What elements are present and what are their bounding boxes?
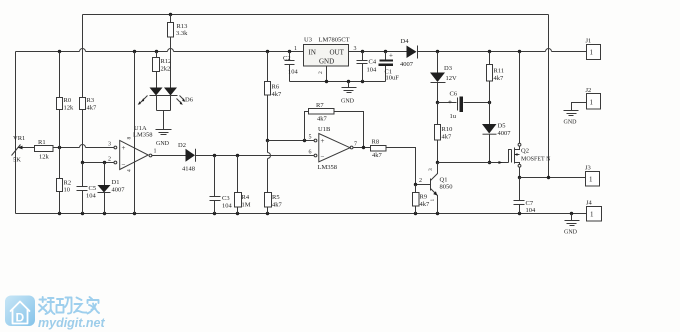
svg-text:1: 1 <box>590 99 594 107</box>
ground symbol for D6 <box>156 130 172 148</box>
node rail C / R2 <box>58 212 61 215</box>
svg-text:C7: C7 <box>526 200 534 207</box>
wire bottom rail C <box>16 213 587 215</box>
svg-text:3: 3 <box>108 142 111 148</box>
wire rail B left segment with hops at x=82 and x=170.5 <box>16 51 304 53</box>
resistor R9 <box>413 185 431 214</box>
resistor R4 <box>235 156 251 214</box>
wire D2 to U1B pin6 with hop at x=267 <box>196 155 314 157</box>
wire U1A power pin vertical x134.3 (rail B to rail C through symbol) <box>134 52 136 214</box>
wire U1B output to R8 <box>354 147 371 149</box>
node rail C / J4 ground <box>570 212 573 215</box>
svg-text:104: 104 <box>367 67 378 74</box>
op-amp U1B LM358 <box>309 126 358 171</box>
connector J2 <box>572 87 601 111</box>
svg-text:+: + <box>122 144 126 152</box>
ground symbol below U3 <box>341 82 357 105</box>
svg-text:12k: 12k <box>64 105 75 112</box>
node rail B / U1A pin8 <box>133 50 136 53</box>
svg-text:4148: 4148 <box>182 166 195 173</box>
wire pin5 row to U1B <box>268 140 314 142</box>
svg-text:C3: C3 <box>222 195 230 202</box>
svg-text:D6: D6 <box>185 97 194 104</box>
voltage regulator U3 LM7805CT <box>294 37 357 75</box>
svg-text:VR1: VR1 <box>13 135 25 142</box>
node D3/C6/R10 junction <box>436 101 439 104</box>
svg-text:1: 1 <box>590 49 594 57</box>
svg-text:R13: R13 <box>177 23 188 30</box>
svg-text:12k: 12k <box>39 154 50 161</box>
node R10/gate wire junction <box>436 161 439 164</box>
svg-text:104: 104 <box>222 203 233 210</box>
hop arc pin3 wire over vertical x82 <box>80 145 86 148</box>
svg-text:R6: R6 <box>272 84 280 91</box>
svg-text:R11: R11 <box>494 68 505 75</box>
node rail B / C1 <box>384 50 387 53</box>
wire U3 ground bus <box>290 81 386 83</box>
node rail C / C3 <box>213 212 216 215</box>
node C3 junction <box>213 154 216 157</box>
svg-text:1u: 1u <box>450 113 457 120</box>
resistor R8 <box>371 139 387 160</box>
svg-text:R0: R0 <box>64 97 72 104</box>
svg-text:Q1: Q1 <box>440 177 448 184</box>
wire rail B right segment (U3 out to J1) with hop at x=548 <box>349 51 587 53</box>
node rail C / D1 <box>103 212 106 215</box>
wire pin3 row (R1 to U1A pin3) with hop at x=82 <box>54 147 114 149</box>
wire left rail vertical <box>15 52 17 214</box>
transistor Q1 8050 <box>416 163 453 214</box>
svg-text:10uF: 10uF <box>386 75 400 82</box>
svg-text:4k7: 4k7 <box>442 134 453 141</box>
svg-text:+: + <box>389 52 393 60</box>
svg-text:D5: D5 <box>498 123 506 130</box>
node D5/gate wire junction <box>488 161 491 164</box>
svg-text:3: 3 <box>354 46 357 52</box>
diode D3 zener 12V <box>430 52 457 103</box>
svg-text:5: 5 <box>309 135 312 141</box>
svg-text:J1: J1 <box>586 38 592 45</box>
node rail A drop on J3 wire <box>547 176 550 179</box>
svg-text:4k7: 4k7 <box>317 116 328 123</box>
LED D6 dual diode <box>138 88 194 130</box>
svg-text:R8: R8 <box>372 139 380 146</box>
node rail C / R4 <box>236 212 239 215</box>
svg-text:R2: R2 <box>64 180 72 187</box>
wire R13 down to LED (crosses rail B under hop) <box>170 38 172 88</box>
svg-text:4007: 4007 <box>400 61 414 68</box>
junction dot on rail A at R13 <box>169 13 172 16</box>
svg-text:R3: R3 <box>87 97 95 104</box>
watermark logo mydigit <box>5 296 106 331</box>
svg-text:R5: R5 <box>272 194 280 201</box>
connector J4 <box>586 200 602 222</box>
svg-text:4k7: 4k7 <box>420 201 431 208</box>
svg-text:GND: GND <box>341 99 355 105</box>
node pin2/C5 junction <box>81 161 84 164</box>
hop arc rail B over vertical x548 <box>546 49 552 52</box>
svg-text:104: 104 <box>526 207 537 214</box>
mosfet Q2 MOSFET N <box>499 52 552 178</box>
wire top rail A <box>83 14 549 16</box>
node R6/R5/pin5 junction <box>266 139 269 142</box>
svg-text:D: D <box>16 311 25 325</box>
wire vertical x82 R3 to pin2 row <box>82 110 84 163</box>
wire rail A right drop to J3 line <box>548 15 550 178</box>
ground symbol for J2 <box>564 111 579 126</box>
svg-text:MOSFET N: MOSFET N <box>521 157 551 163</box>
svg-text:GND: GND <box>156 141 170 147</box>
svg-text:J2: J2 <box>586 87 592 94</box>
svg-text:J3: J3 <box>585 165 591 172</box>
svg-text:1: 1 <box>154 149 157 155</box>
resistor R12 <box>153 52 172 73</box>
node rail C / U1A pin4 <box>133 212 136 215</box>
node R1/R0/R2 junction <box>58 146 61 149</box>
svg-text:GND: GND <box>564 120 578 126</box>
node rail B / C4 <box>361 50 364 53</box>
resistor R1 <box>35 139 54 161</box>
wire Q2 source to J3 <box>520 177 586 179</box>
svg-text:2k2: 2k2 <box>161 66 171 73</box>
resistor R11 <box>487 52 505 103</box>
svg-text:U1B: U1B <box>318 126 331 133</box>
resistor R2 <box>57 148 72 214</box>
svg-text:+: + <box>321 137 325 145</box>
svg-text:R1: R1 <box>38 139 46 146</box>
node rail B / R11 <box>488 50 491 53</box>
svg-text:IN: IN <box>309 49 316 57</box>
potentiometer VR1 <box>12 135 35 164</box>
resistor R6 <box>265 52 283 99</box>
svg-text:104: 104 <box>288 69 299 76</box>
wire U1A output to D2 <box>151 155 185 157</box>
svg-text:1M: 1M <box>242 202 251 209</box>
svg-text:GND: GND <box>319 58 334 66</box>
capacitor C3 <box>210 156 233 214</box>
wire U3 GND pin down <box>326 66 328 82</box>
svg-text:U3: U3 <box>304 37 312 44</box>
hop arc rail B over vertical x82 <box>80 49 86 52</box>
svg-text:−: − <box>122 161 126 169</box>
svg-text:6: 6 <box>309 150 312 156</box>
svg-text:2: 2 <box>108 157 111 163</box>
node rail B / R0 <box>58 50 61 53</box>
resistor R0 <box>57 52 75 148</box>
svg-text:8050: 8050 <box>440 184 453 191</box>
svg-text:R12: R12 <box>161 58 172 65</box>
diode D2 <box>178 142 196 173</box>
node rail B / R6 <box>266 50 269 53</box>
capacitor C2 <box>283 52 299 82</box>
svg-text:C4: C4 <box>369 59 377 66</box>
svg-text:R7: R7 <box>316 102 324 109</box>
node R7/output junction <box>362 146 365 149</box>
resistor R13 <box>168 15 189 38</box>
svg-text:LM358: LM358 <box>133 132 153 139</box>
svg-text:10: 10 <box>64 187 71 194</box>
resistor R10 <box>435 103 453 163</box>
node gnd symbol on bus <box>347 80 350 83</box>
svg-text:104: 104 <box>86 193 97 200</box>
svg-text:−: − <box>321 153 325 161</box>
svg-text:7: 7 <box>354 142 357 148</box>
svg-text:LM358: LM358 <box>318 164 338 171</box>
svg-text:4007: 4007 <box>498 130 512 137</box>
capacitor C1 electrolytic <box>379 52 400 82</box>
svg-text:4k7: 4k7 <box>272 202 283 209</box>
svg-text:C5: C5 <box>89 185 97 192</box>
capacitor C7 <box>514 178 537 215</box>
node pin2/D1 junction <box>103 161 106 164</box>
svg-text:R9: R9 <box>420 194 428 201</box>
node R7 feedback tap on pin5 wire <box>303 139 306 142</box>
svg-text:R10: R10 <box>442 126 453 133</box>
hop arc vertical x267 over pin6 wire <box>268 153 271 159</box>
node rail C / R5 <box>266 212 269 215</box>
node Q1 base / R9 junction <box>414 183 417 186</box>
node rail C / Q1 emitter <box>436 212 439 215</box>
node U3 gnd pin on bus <box>325 80 328 83</box>
resistor R3 <box>80 97 98 112</box>
node R4 junction <box>236 154 239 157</box>
node rail C / R9 <box>414 212 417 215</box>
node rail B / C2 <box>288 50 291 53</box>
svg-text:R4: R4 <box>242 194 250 201</box>
svg-text:4k7: 4k7 <box>87 105 98 112</box>
diode D4 <box>400 38 418 68</box>
svg-text:+: + <box>448 98 452 106</box>
svg-text:D1: D1 <box>112 179 120 186</box>
svg-text:mydigit.net: mydigit.net <box>38 316 106 330</box>
node rail B / R12 <box>155 50 158 53</box>
svg-text:D4: D4 <box>401 38 410 45</box>
node rail C / C7 <box>518 212 521 215</box>
svg-text:GND: GND <box>564 230 578 236</box>
svg-text:2: 2 <box>419 178 422 184</box>
svg-text:2: 2 <box>318 71 324 74</box>
svg-text:4007: 4007 <box>112 187 126 194</box>
svg-text:4k7: 4k7 <box>494 75 505 82</box>
svg-text:1: 1 <box>294 46 297 52</box>
wire R6 down to pin5 node <box>267 96 269 141</box>
svg-text:3.3k: 3.3k <box>176 30 188 37</box>
wire gate row Q1 collector to Q2 gate <box>438 162 509 164</box>
capacitor C5 <box>77 163 97 214</box>
svg-text:8: 8 <box>127 137 133 140</box>
wire R8 to Q1 base node <box>386 148 416 185</box>
wire R12 down to LED <box>156 72 158 88</box>
node rail C / C5 <box>81 212 84 215</box>
wire rail A left drop to R3 line <box>82 15 84 98</box>
svg-text:LM7805CT: LM7805CT <box>319 37 350 44</box>
svg-text:1: 1 <box>430 199 436 202</box>
diode D5 <box>482 103 511 163</box>
diode D1 <box>98 163 126 214</box>
svg-text:1: 1 <box>590 211 594 219</box>
svg-text:3: 3 <box>428 168 434 171</box>
svg-text:D2: D2 <box>178 142 186 149</box>
node rail B / Q2 drain <box>518 50 521 53</box>
connector J1 <box>586 38 601 60</box>
op-amp U1A LM358 <box>108 125 157 172</box>
svg-text:1: 1 <box>589 176 593 184</box>
wire vertical x267 pin5 node down to R5 with hop over pin6 wire <box>267 141 269 193</box>
capacitor C6 electrolytic <box>438 91 490 121</box>
svg-text:4: 4 <box>127 169 133 172</box>
resistor R7 feedback <box>305 102 364 149</box>
svg-text:Q2: Q2 <box>521 148 529 155</box>
svg-text:D3: D3 <box>444 65 452 72</box>
node C6/R11/D5 junction <box>488 101 491 104</box>
node Q2 source junction <box>518 176 521 179</box>
node C4 on bus <box>361 80 364 83</box>
wire pin2 row (x82 to U1A pin2) <box>83 162 114 164</box>
svg-text:J4: J4 <box>586 200 593 207</box>
node rail B / D3 <box>436 50 439 53</box>
svg-text:C2: C2 <box>283 55 291 62</box>
svg-text:4k7: 4k7 <box>372 152 383 159</box>
svg-text:12V: 12V <box>446 75 458 82</box>
ground symbol for J4 <box>564 214 580 236</box>
svg-text:5K: 5K <box>13 157 21 164</box>
connector J3 <box>585 165 600 187</box>
capacitor C4 <box>357 52 378 82</box>
svg-text:C6: C6 <box>450 91 458 98</box>
hop arc rail B over vertical x170.5 <box>168 49 174 52</box>
resistor R5 <box>265 193 283 214</box>
svg-text:OUT: OUT <box>330 49 345 57</box>
svg-text:4k7: 4k7 <box>272 91 283 98</box>
